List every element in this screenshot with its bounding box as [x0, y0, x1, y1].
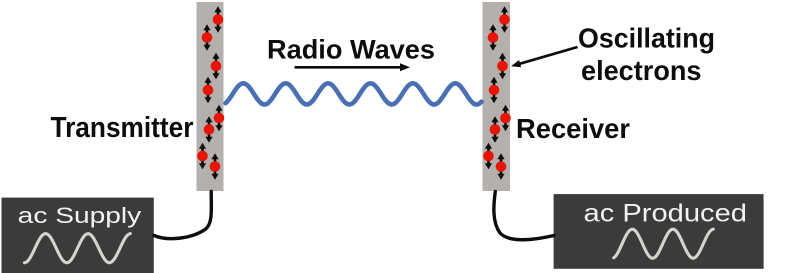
electron e4 (transmitter) [203, 77, 214, 103]
propagation arrow [295, 63, 411, 71]
transmitter antenna bar [197, 2, 224, 191]
svg-text:Radio Waves: Radio Waves [267, 35, 435, 65]
svg-text:ac Produced: ac Produced [584, 199, 748, 227]
electron e16 (receiver) [496, 153, 507, 179]
wire supply-to-transmitter [154, 192, 211, 239]
ac supply box [2, 198, 154, 273]
label "Oscillating electrons" [578, 22, 715, 86]
electron e11 (receiver) [497, 53, 508, 79]
wire receiver-to-produced [494, 192, 554, 240]
electron e2 (transmitter) [202, 24, 213, 50]
electron e8 (transmitter) [210, 153, 221, 179]
electron e9 (receiver) [499, 6, 510, 32]
electron e12 (receiver) [489, 77, 500, 103]
electron e10 (receiver) [488, 24, 499, 50]
svg-text:ac Supply: ac Supply [18, 203, 142, 228]
svg-text:electrons: electrons [581, 55, 702, 86]
electron e3 (transmitter) [211, 53, 222, 79]
ac produced sine symbol [614, 229, 714, 258]
svg-text:Oscillating: Oscillating [578, 22, 715, 53]
electron e13 (receiver) [500, 105, 511, 131]
electron e14 (receiver) [490, 116, 501, 142]
annotation arrow to receiver [511, 47, 578, 67]
radio wave (blue sine) [226, 83, 482, 104]
electron e6 (transmitter) [204, 116, 215, 142]
svg-text:Receiver: Receiver [516, 113, 630, 144]
svg-text:Transmitter: Transmitter [51, 112, 194, 144]
ac supply sine symbol [24, 234, 130, 263]
electron e1 (transmitter) [213, 6, 224, 32]
electron e7 (transmitter) [197, 143, 208, 169]
receiver antenna bar [483, 2, 511, 191]
electron e15 (receiver) [483, 143, 494, 169]
ac produced box [554, 194, 764, 269]
electron e5 (transmitter) [214, 105, 225, 131]
